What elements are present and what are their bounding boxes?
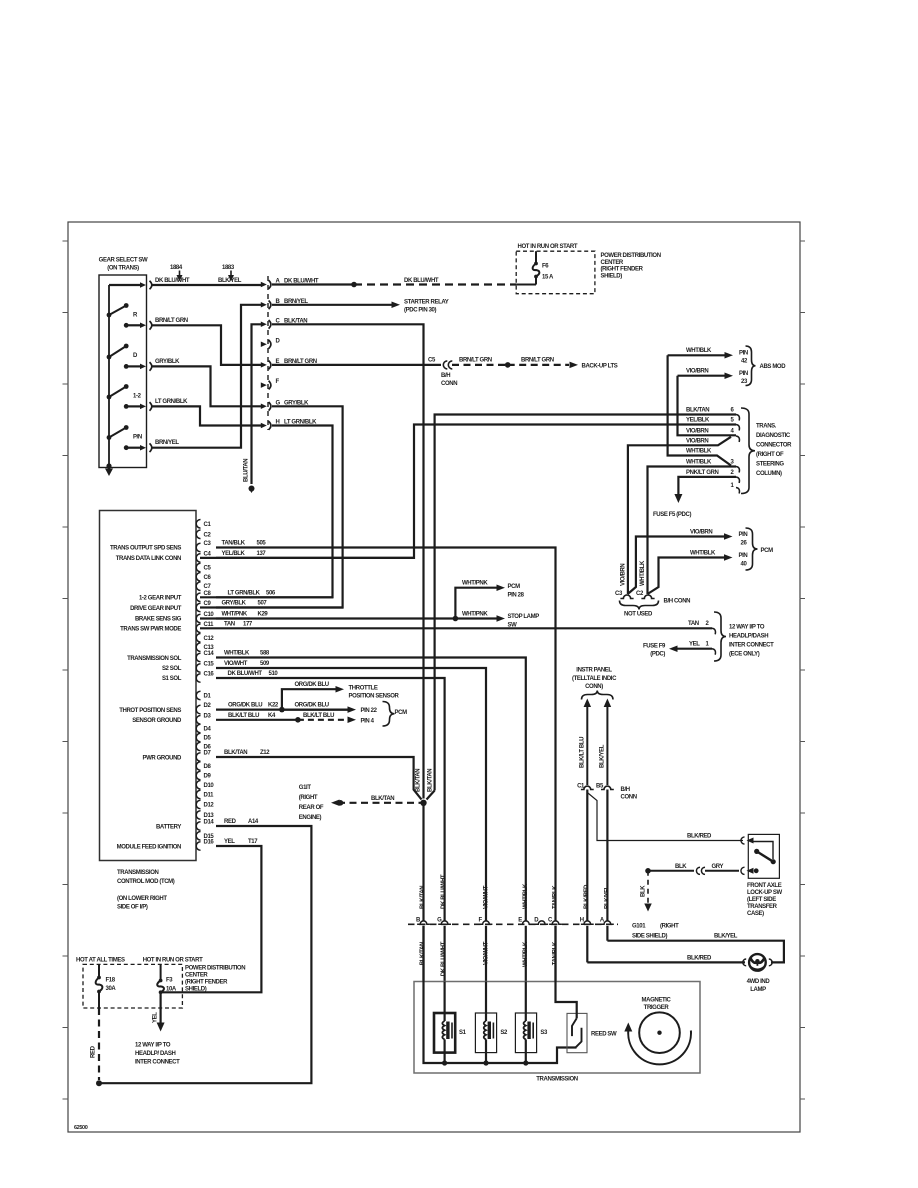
wire BLK/TAN from diag pin 6 into junction	[427, 791, 435, 800]
svg-text:ABS MOD: ABS MOD	[760, 364, 787, 370]
svg-text:TAN/BLK: TAN/BLK	[553, 885, 559, 909]
svg-text:TRANSMISSION SOL: TRANSMISSION SOL	[127, 656, 182, 662]
svg-text:506: 506	[266, 590, 276, 596]
wire BLK/TAN Z12 (D7) to ground junction	[216, 757, 422, 800]
svg-text:(TELLTALE INDIC: (TELLTALE INDIC	[572, 676, 617, 682]
wire LT GRN/BLK pin H vertical to TCM C8	[200, 426, 333, 598]
svg-text:PCM: PCM	[508, 584, 521, 590]
wire YEL T17 (D16) ignition feed	[162, 846, 261, 992]
svg-text:(PDC): (PDC)	[650, 652, 665, 658]
svg-text:DK BLU/WHT: DK BLU/WHT	[441, 874, 447, 909]
svg-text:WHT/PNK: WHT/PNK	[462, 581, 488, 587]
svg-text:FUSE F9: FUSE F9	[643, 644, 666, 650]
svg-text:BRN/LT GRN: BRN/LT GRN	[521, 358, 554, 364]
TCM pin D15	[196, 832, 200, 841]
svg-text:C14: C14	[204, 651, 215, 657]
svg-text:CONN): CONN)	[585, 684, 603, 690]
solenoid S3 box	[515, 1013, 536, 1053]
TCM pin C6	[196, 573, 200, 582]
svg-text:D4: D4	[204, 727, 212, 733]
wire BLK dashed to G101	[647, 871, 649, 904]
svg-text:WHT/BLK: WHT/BLK	[686, 348, 712, 354]
svg-text:INSTR PANEL: INSTR PANEL	[576, 668, 612, 674]
svg-text:YEL/BLK: YEL/BLK	[686, 418, 710, 424]
wire LT GRN/BLK 506 (C8)	[216, 596, 333, 598]
svg-text:BRN/LT GRN: BRN/LT GRN	[459, 358, 492, 364]
svg-text:ORG/DK BLU: ORG/DK BLU	[295, 682, 329, 688]
wire VIO/BRN (B/H C3 to diag pin 4)	[628, 437, 731, 594]
switch pin 1-2	[124, 404, 129, 409]
svg-text:C15: C15	[204, 662, 215, 668]
wire WHT/PNK to PCM pin 28	[455, 588, 497, 619]
svg-text:ORG/DK BLU: ORG/DK BLU	[228, 703, 262, 709]
wire YEL/BLK to diag pin 5 (from TCM C4)	[200, 425, 736, 558]
svg-text:C7: C7	[204, 584, 212, 590]
svg-text:4WD IND: 4WD IND	[747, 979, 771, 985]
diag pin hook	[736, 436, 739, 442]
svg-text:INTER CONNECT: INTER CONNECT	[729, 643, 774, 649]
svg-text:STOP LAMP: STOP LAMP	[508, 614, 540, 620]
svg-text:D5: D5	[204, 736, 212, 742]
svg-text:TAN: TAN	[224, 621, 235, 627]
power distribution center box (bottom)	[83, 964, 182, 1008]
wire VIO/BRN to ABS pin 23	[678, 375, 727, 377]
TCM pin D5	[196, 733, 200, 742]
wire YEL/BLK 137 (C4)	[216, 557, 414, 559]
gear select switch box	[99, 275, 147, 468]
svg-text:LT GRN/BLK: LT GRN/BLK	[228, 590, 261, 596]
svg-text:D7: D7	[204, 751, 212, 757]
svg-text:C12: C12	[204, 636, 215, 642]
wire BLK/RED branch to front axle sw	[587, 793, 743, 841]
svg-text:STARTER RELAY: STARTER RELAY	[404, 300, 449, 306]
splice on A rail	[351, 282, 357, 288]
TCM pin C13	[196, 643, 200, 652]
trans connector pin C	[549, 921, 562, 924]
brace trans diagnostic connector	[741, 408, 755, 494]
TCM pin D14	[196, 822, 200, 831]
svg-text:C16: C16	[204, 672, 215, 678]
svg-text:VIO/BRN: VIO/BRN	[686, 369, 708, 375]
svg-text:BLK/LT BLU: BLK/LT BLU	[228, 713, 259, 719]
svg-text:BLK/TAN: BLK/TAN	[416, 769, 422, 792]
svg-text:PNK/LT GRN: PNK/LT GRN	[686, 470, 718, 476]
wire BLK/RED C1 down to 4WD lamp	[586, 790, 588, 921]
svg-text:DRIVE GEAR INPUT: DRIVE GEAR INPUT	[130, 606, 182, 612]
switch contact P/N	[107, 435, 112, 440]
solenoid S3 coil	[525, 982, 527, 1022]
trans connector pin G	[438, 921, 451, 924]
solenoid S3 ground dot	[523, 1060, 528, 1065]
svg-text:30A: 30A	[106, 986, 117, 992]
TCM pin C12	[196, 634, 200, 643]
svg-text:GRY: GRY	[712, 864, 724, 870]
svg-text:PCM: PCM	[395, 710, 408, 716]
svg-text:BLK/YEL: BLK/YEL	[714, 934, 738, 940]
svg-text:C8: C8	[204, 591, 212, 597]
wire DK BLU/WHT (gear sw to pin A)	[151, 284, 262, 286]
wire BLK/LT BLU dashed to PCM pin 4	[298, 719, 348, 721]
svg-text:H: H	[580, 917, 584, 923]
svg-text:C6: C6	[204, 575, 212, 581]
svg-text:D12: D12	[204, 803, 215, 809]
svg-text:P/N: P/N	[133, 435, 142, 441]
svg-text:G1IT: G1IT	[299, 785, 312, 791]
12-way pin hooks	[712, 628, 715, 634]
svg-text:40: 40	[741, 562, 748, 568]
svg-text:STEERING: STEERING	[756, 462, 784, 468]
wire ORG/DK BLU K22 (D2)	[216, 708, 348, 710]
TCM pin C14	[196, 653, 200, 662]
connector pin B	[261, 302, 267, 308]
svg-text:YEL: YEL	[689, 642, 700, 648]
border frame	[68, 222, 800, 1132]
switch upper contact	[741, 837, 745, 844]
svg-text:TRIGGER: TRIGGER	[644, 1005, 670, 1011]
svg-text:BRAKE SENS SIG: BRAKE SENS SIG	[135, 617, 182, 623]
svg-text:D11: D11	[204, 793, 215, 799]
svg-text:1883: 1883	[222, 265, 235, 271]
svg-text:C3: C3	[204, 541, 212, 547]
svg-text:D14: D14	[204, 820, 215, 826]
TCM pin C16	[196, 674, 200, 683]
svg-text:PIN: PIN	[739, 532, 748, 538]
svg-text:D9: D9	[204, 774, 212, 780]
trans connector pin D	[535, 921, 548, 924]
diag pin hook	[736, 415, 739, 421]
svg-text:WHT/BLK: WHT/BLK	[640, 560, 646, 586]
svg-text:BLK/YEL: BLK/YEL	[600, 744, 606, 768]
svg-text:(ON LOWER RIGHT: (ON LOWER RIGHT	[117, 896, 167, 902]
svg-text:WHT/BLK: WHT/BLK	[224, 651, 250, 657]
wires through trans connector into transmission	[422, 926, 424, 982]
diag pin hook	[736, 477, 739, 483]
wire BLK/TAN pin C vertical	[272, 324, 424, 798]
svg-text:COLUMN): COLUMN)	[756, 471, 782, 477]
svg-text:PIN: PIN	[739, 553, 748, 559]
svg-text:D3: D3	[204, 713, 212, 719]
solenoid S2 coil	[485, 982, 487, 1022]
svg-text:1-2: 1-2	[133, 394, 142, 400]
svg-text:F6: F6	[542, 264, 549, 270]
svg-text:B5: B5	[596, 784, 604, 790]
splice WHT/PNK	[453, 616, 459, 622]
svg-text:TRANS SW PWR MODE: TRANS SW PWR MODE	[120, 627, 181, 633]
TCM pin C2	[196, 530, 200, 539]
TCM pin D11	[196, 790, 200, 799]
wire WHT/PNK K29 (C10)	[216, 617, 250, 619]
reed switch box	[567, 1013, 587, 1052]
svg-text:LOCK-UP SW: LOCK-UP SW	[747, 890, 782, 896]
switch lower contact	[741, 867, 745, 874]
svg-text:NOT USED: NOT USED	[624, 612, 653, 618]
svg-text:THROTTLE: THROTTLE	[349, 686, 378, 692]
svg-text:(RIGHT OF: (RIGHT OF	[756, 452, 784, 458]
TCM pin D9	[196, 771, 200, 780]
brace PCM	[746, 528, 758, 570]
svg-text:TRANSMISSION: TRANSMISSION	[117, 870, 158, 876]
wire BRN/LT GRN pin E to C5	[272, 364, 441, 366]
svg-text:D10: D10	[204, 783, 215, 789]
wire YEL fuse F3 to 12-way	[160, 992, 162, 1023]
wire BLK/YEL B5 to instr panel	[606, 705, 608, 785]
wire DK BLU/WHT 510 (C16) down to solenoid S1	[216, 678, 445, 921]
svg-text:12 WAY I/P TO: 12 WAY I/P TO	[729, 625, 765, 631]
svg-text:23: 23	[741, 379, 748, 385]
svg-text:C2: C2	[636, 591, 644, 597]
svg-text:POWER DISTRIBUTION: POWER DISTRIBUTION	[601, 253, 661, 259]
svg-text:G101: G101	[632, 924, 646, 930]
wire WHT/BLK (B/H C2 to diag pin 3)	[648, 467, 737, 595]
TCM pin C7	[196, 582, 200, 591]
svg-text:PIN: PIN	[739, 351, 748, 357]
solenoid S1 ground dot	[442, 1060, 447, 1065]
splice	[505, 362, 511, 368]
svg-text:15 A: 15 A	[542, 275, 554, 281]
svg-text:(RIGHT: (RIGHT	[299, 795, 318, 801]
svg-text:ORG/DK BLU: ORG/DK BLU	[295, 703, 329, 709]
svg-text:SENSOR GROUND: SENSOR GROUND	[132, 718, 182, 724]
svg-text:S2: S2	[500, 1030, 508, 1036]
svg-text:POWER DISTRIBUTION: POWER DISTRIBUTION	[185, 966, 245, 972]
svg-text:B/H: B/H	[621, 787, 630, 793]
svg-text:THROT POSITION SENS: THROT POSITION SENS	[119, 708, 181, 714]
switch pin D	[124, 364, 129, 369]
connector C5 B/H CONN	[443, 361, 447, 369]
svg-text:588: 588	[260, 651, 270, 657]
svg-text:CONN: CONN	[441, 381, 457, 387]
TCM pin C9	[196, 603, 200, 612]
diag pin hook	[736, 467, 739, 473]
ground (gear select sw)	[106, 463, 111, 468]
wire VIO/WHT 509 (C15) down to solenoid S2	[216, 668, 486, 921]
wire RED fuse F18 dashed down	[98, 1008, 100, 1080]
gear sw top pin (DK BLU/WHT)	[109, 284, 140, 286]
trans connector pin F	[480, 921, 493, 924]
TCM pin D6	[196, 742, 200, 751]
connector pin F	[261, 382, 267, 388]
svg-text:BRN/YEL: BRN/YEL	[155, 440, 179, 446]
svg-text:505: 505	[257, 541, 267, 547]
wire BLK/TAN to diag pin 6	[435, 415, 736, 791]
fuse F6 15A	[535, 251, 537, 263]
svg-text:WHT/BLK: WHT/BLK	[523, 883, 529, 909]
svg-text:BLK/TAN: BLK/TAN	[420, 886, 426, 909]
brace ABS MOD	[746, 346, 756, 386]
svg-text:(RIGHT: (RIGHT	[660, 924, 679, 930]
svg-text:D1: D1	[204, 694, 212, 700]
svg-text:C3: C3	[615, 591, 623, 597]
svg-text:CENTER: CENTER	[185, 972, 208, 978]
junction BLK/TAN ground node	[420, 800, 426, 806]
wire BLK/YEL B5 down	[606, 790, 608, 921]
svg-text:(RIGHT FENDER: (RIGHT FENDER	[601, 267, 644, 273]
trans connector pin E	[519, 921, 532, 924]
4WD indicator lamp	[743, 959, 746, 966]
svg-text:BLK/LT BLU: BLK/LT BLU	[303, 713, 334, 719]
connector C101 dashed body	[267, 276, 269, 430]
svg-text:F18: F18	[106, 978, 116, 984]
wire WHT/BLK vertical (ABS 42 to diag pin 3)	[668, 355, 731, 465]
svg-text:POSITION SENSOR: POSITION SENSOR	[349, 694, 400, 700]
svg-text:(ON TRANS): (ON TRANS)	[107, 266, 139, 272]
svg-text:DK BLU/WHT: DK BLU/WHT	[404, 278, 439, 284]
B/H conn C3 (not used)	[620, 595, 633, 599]
svg-text:SHIELD): SHIELD)	[185, 987, 207, 993]
svg-text:12 WAY I/P TO: 12 WAY I/P TO	[135, 1043, 171, 1049]
svg-text:D13: D13	[204, 813, 215, 819]
svg-text:C5: C5	[204, 566, 212, 572]
wire TAN to 12-way pin 2 (TCM C11)	[200, 627, 712, 629]
svg-text:TRANSMISSION: TRANSMISSION	[536, 1077, 577, 1083]
front axle lock-up switch box	[748, 834, 779, 878]
svg-text:VIO/BRN: VIO/BRN	[686, 429, 708, 435]
svg-text:D8: D8	[204, 764, 212, 770]
svg-text:HOT IN RUN OR START: HOT IN RUN OR START	[518, 244, 578, 250]
trans connector pin A	[601, 921, 614, 924]
svg-text:BLK/TAN: BLK/TAN	[371, 796, 394, 802]
wire DK BLU/WHT pin A to splice	[272, 283, 354, 285]
diag pin hook	[736, 488, 739, 494]
wire GRY/BLK (D to pin G)	[151, 366, 262, 406]
wire BLK / GRY to front axle sw	[645, 868, 651, 874]
svg-text:FUSE F5 (PDC): FUSE F5 (PDC)	[653, 512, 691, 518]
connector pin E	[261, 362, 267, 368]
svg-text:C10: C10	[204, 612, 215, 618]
svg-text:RED: RED	[224, 819, 237, 825]
svg-text:SHIELD): SHIELD)	[601, 273, 623, 279]
svg-text:SIDE SHIELD): SIDE SHIELD)	[632, 934, 667, 940]
brace NOT USED	[620, 601, 659, 610]
connector pin D	[261, 342, 267, 348]
svg-text:LAMP: LAMP	[750, 987, 766, 993]
switch pin P/N	[124, 445, 129, 450]
svg-text:PIN 22: PIN 22	[361, 708, 378, 714]
wire BRN/LT GRN dashed to splice	[452, 364, 508, 366]
svg-text:GEAR SELECT SW: GEAR SELECT SW	[99, 258, 148, 264]
wire WHT/PNK TCM C10 to stop lamp sw	[200, 617, 497, 619]
svg-text:MAGNETIC: MAGNETIC	[642, 998, 672, 1004]
svg-text:WHT/BLK: WHT/BLK	[686, 449, 712, 455]
svg-text:Z12: Z12	[260, 750, 270, 756]
svg-text:BLU/TAN: BLU/TAN	[244, 459, 250, 482]
switch lever	[754, 849, 759, 854]
svg-text:RED: RED	[91, 1045, 97, 1058]
wire TAN/BLK into reed switch	[556, 926, 577, 1018]
svg-text:LT GRN/BLK: LT GRN/BLK	[155, 399, 188, 405]
switch pin R	[124, 323, 129, 328]
wire WHT/BLK 588 (C14) down to solenoid S3	[216, 658, 526, 921]
TCM pin D8	[196, 762, 200, 771]
brace PCM (22/4)	[383, 702, 395, 727]
svg-text:F3: F3	[166, 978, 173, 984]
wire BLK/YEL to 4WD lamp (right side)	[607, 941, 784, 963]
svg-text:S1: S1	[459, 1030, 467, 1036]
svg-text:HOT AT ALL TIMES: HOT AT ALL TIMES	[76, 958, 125, 964]
wire BLK/LT BLU C1 to instr panel	[586, 705, 588, 785]
wire BLK/TAN junction down to trans conn B	[422, 803, 424, 921]
wire BLK/RED to 4WD lamp (left side)	[587, 961, 745, 963]
TCM pin D12	[196, 800, 200, 809]
splice D3	[295, 717, 301, 723]
TCM pin C11	[196, 624, 200, 633]
B/H conn B5	[601, 786, 614, 789]
svg-text:10A: 10A	[166, 987, 177, 993]
svg-text:C2: C2	[204, 532, 212, 538]
brace instr panel	[582, 691, 614, 700]
wire PNK/LT GRN diag pin 2 to fuse F5	[678, 477, 736, 494]
svg-text:DIAGNOSTIC: DIAGNOSTIC	[756, 433, 791, 439]
fuse F18 30A	[98, 964, 100, 977]
wire ORG/DK BLU to PCM pin 22	[282, 708, 348, 710]
svg-text:509: 509	[260, 661, 270, 667]
splice D2	[279, 707, 285, 713]
switch contact 1-2	[107, 395, 112, 400]
svg-text:YEL: YEL	[224, 839, 235, 845]
svg-text:YEL/BLK: YEL/BLK	[222, 551, 246, 557]
svg-text:VIO/BRN: VIO/BRN	[690, 530, 712, 536]
svg-text:CONNECTOR: CONNECTOR	[756, 443, 792, 449]
svg-text:ENGINE): ENGINE)	[299, 815, 322, 821]
svg-text:HEADLP/ DASH: HEADLP/ DASH	[135, 1051, 175, 1057]
svg-text:K29: K29	[258, 612, 269, 618]
svg-text:D2: D2	[204, 703, 212, 709]
TCM pin D1	[196, 691, 200, 700]
svg-text:BLK/LT BLU: BLK/LT BLU	[580, 737, 586, 768]
TCM pin D3	[196, 716, 200, 725]
TCM pin D16	[196, 842, 200, 851]
TCM pin C5	[196, 563, 200, 572]
svg-text:PIN: PIN	[739, 371, 748, 377]
reed switch contacts	[572, 1018, 577, 1036]
svg-text:CONN: CONN	[621, 795, 637, 801]
svg-text:HOT IN RUN OR START: HOT IN RUN OR START	[143, 958, 203, 964]
svg-text:C11: C11	[204, 622, 215, 628]
wire BRN/YEL pin B to starter relay	[272, 304, 392, 306]
svg-text:177: 177	[243, 621, 253, 627]
svg-text:E: E	[518, 917, 522, 923]
svg-text:DK BLU/WHT: DK BLU/WHT	[228, 671, 263, 677]
wire TAN/BLK 505 (C3) down to trans conn C	[216, 548, 556, 921]
svg-text:1884: 1884	[170, 265, 183, 271]
svg-text:YEL: YEL	[153, 1012, 159, 1023]
svg-text:FRONT AXLE: FRONT AXLE	[747, 883, 782, 889]
inline connector (BLK/GRY)	[696, 867, 700, 874]
junction RED	[96, 1080, 102, 1086]
TCM pin C1	[196, 520, 200, 529]
wire LT GRN/BLK (1-2 to pin H)	[151, 406, 262, 425]
svg-text:REED SW: REED SW	[591, 1032, 617, 1038]
svg-text:T17: T17	[248, 839, 258, 845]
TCM pin D4	[196, 724, 200, 733]
gear select switch common bus	[108, 285, 110, 468]
connector pin G	[261, 404, 267, 410]
svg-text:WHT/PNK: WHT/PNK	[222, 612, 248, 618]
fuse F3 10A	[160, 964, 162, 980]
wire RED A14 (D14) battery feed	[101, 826, 311, 1083]
svg-text:K22: K22	[268, 703, 279, 709]
svg-text:PIN 4: PIN 4	[361, 718, 375, 724]
solenoid S1 coil	[444, 982, 446, 1022]
svg-text:BLK/TAN: BLK/TAN	[428, 769, 434, 792]
svg-text:INTER CONNECT: INTER CONNECT	[135, 1060, 180, 1066]
svg-text:C1: C1	[577, 784, 585, 790]
svg-text:K4: K4	[268, 713, 276, 719]
wire BRN/LT GRN (R to pin E)	[151, 325, 262, 365]
brace 12-way	[714, 612, 726, 661]
svg-text:CENTER: CENTER	[601, 260, 624, 266]
svg-text:S3: S3	[540, 1030, 548, 1036]
